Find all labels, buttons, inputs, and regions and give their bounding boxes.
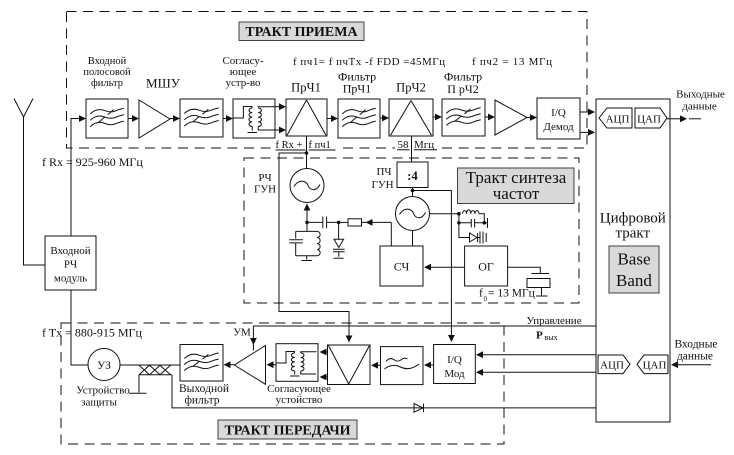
resonator: RF VCO tank circuit (L parallel C)	[289, 222, 320, 260]
block: protection device (УЗ)	[76, 349, 130, 409]
svg-text:Демод: Демод	[543, 121, 574, 133]
wire: IF VCO output to resonator	[430, 213, 459, 215]
diode: power detector	[414, 404, 424, 413]
receive path dashed boundary	[67, 12, 588, 149]
inductor: IF VCO resonator coil	[463, 210, 485, 223]
wire: LO1 from RF VCO to mixer ПрЧ1 with branch to TX mixer	[279, 136, 349, 338]
svg-text:Мод: Мод	[444, 368, 465, 380]
wire: demod Q output to ADC	[580, 129, 595, 136]
block: I/Q modulator (I/Q Мод)	[434, 345, 476, 384]
svg-text:I/Q: I/Q	[447, 354, 462, 366]
converter: RX DAC (ЦАП)	[635, 108, 667, 128]
amplifier: power amp УМ	[233, 327, 265, 385]
converter: TX DAC (ЦАП)	[637, 355, 668, 374]
wire: matching to mixer 1 (two ports)	[275, 103, 286, 133]
svg-text:УМ: УМ	[233, 327, 251, 339]
wire: DAC I to modulator	[476, 351, 596, 358]
svg-text:ПрЧ1: ПрЧ1	[291, 81, 321, 95]
net label background: f Rx + f пч1	[273, 140, 338, 152]
mixer: TX up-converter	[328, 345, 371, 385]
svg-text:данные: данные	[677, 351, 713, 363]
wire: output data arrow	[667, 115, 701, 122]
svg-text:частот: частот	[493, 184, 540, 203]
svg-text:полосовой: полосовой	[83, 67, 131, 78]
svg-text:УЗ: УЗ	[97, 360, 111, 372]
block: output filter (Выходной фильтр)	[179, 345, 229, 407]
wire: LO2 from divider to mixer ПрЧ2	[411, 136, 413, 162]
svg-text:РЧ: РЧ	[258, 172, 271, 184]
node: LO1 branch junction	[305, 151, 309, 155]
svg-text:Устройство: Устройство	[76, 385, 130, 397]
label: transmit path title (ТРАКТ ПЕРЕДАЧИ)	[218, 420, 357, 439]
svg-text:= 13 МГц: = 13 МГц	[488, 288, 535, 300]
block: filter ПрЧ2 (Фильтр ПрЧ2)	[442, 70, 485, 137]
wire: power control line (Управление Рвых) from BaseBand to PA	[253, 326, 596, 351]
wire: filter2 to IF amplifier	[485, 114, 495, 121]
block: input bandpass filter (Входной полосовой фильтр)	[83, 56, 131, 138]
wire: mixer1 to IF1 filter	[327, 115, 338, 122]
wire: TX filter to mixer	[371, 362, 381, 369]
svg-text:Выходной: Выходной	[179, 383, 229, 395]
wire: УЗ to output filter	[120, 364, 180, 366]
svg-text:тракт: тракт	[616, 226, 651, 242]
wire: filter1 to mixer2	[380, 115, 389, 122]
svg-text:Управление: Управление	[526, 315, 581, 327]
block: frequency synthesizer (СЧ)	[380, 246, 423, 286]
varactor diode to ground	[333, 222, 345, 258]
block: TX IF filter	[381, 347, 424, 385]
block: filter ПрЧ1 (Фильтр ПрЧ1)	[338, 70, 380, 139]
wire: PA to output filter	[224, 361, 235, 368]
svg-text:Base: Base	[617, 250, 650, 269]
block: matching device (Согласующее устр-во)	[222, 55, 275, 138]
amplifier: LNA (МШУ)	[139, 76, 181, 139]
mixer ПрЧ1	[286, 81, 327, 137]
ground of coupler	[129, 375, 147, 394]
svg-text:устойство: устойство	[276, 394, 323, 406]
svg-text:Входные: Входные	[674, 339, 717, 351]
node: divider-VCO junction	[411, 189, 415, 193]
block: Base Band	[609, 246, 659, 293]
net label background: 58 Мгц	[395, 139, 439, 149]
wire: RF module up to RX filter input	[71, 115, 86, 236]
svg-text:ПрЧ2: ПрЧ2	[396, 81, 426, 95]
wire: synthesizer output down to СЧ	[390, 222, 392, 246]
resistor: tuning line resistor	[339, 219, 392, 226]
wire: demod I output to ADC	[580, 109, 595, 116]
svg-text:Выходные: Выходные	[676, 89, 725, 101]
wire: mixer outputs to matching (two ports)	[320, 349, 328, 381]
svg-text:Band: Band	[616, 271, 652, 290]
svg-text:ТРАКТ ПЕРЕДАЧИ: ТРАКТ ПЕРЕДАЧИ	[224, 424, 350, 439]
node: resonator top junction	[457, 212, 461, 216]
svg-text:f Rx = 925-960 МГц: f Rx = 925-960 МГц	[42, 155, 143, 169]
wire: divider to IF VCO with branch to I/Q modulator	[413, 188, 452, 339]
svg-text:модуль: модуль	[54, 273, 87, 285]
svg-text:вых: вых	[545, 333, 558, 342]
wire: matching to PA	[267, 361, 277, 368]
svg-text:ПЧ: ПЧ	[376, 166, 391, 178]
label: receive path title (ТРАКТ ПРИЕМА)	[239, 22, 364, 41]
block: TX matching device (Согласующее устойство)	[267, 344, 331, 406]
svg-text:ОГ: ОГ	[478, 260, 494, 274]
svg-text:I/Q: I/Q	[551, 107, 566, 119]
svg-text:f Tx = 880-915 МГц: f Tx = 880-915 МГц	[42, 326, 142, 340]
wire: coupler tap to power detector line	[172, 375, 596, 408]
svg-text:ПрЧ1: ПрЧ1	[343, 82, 371, 96]
oscillator: RF VCO (РЧ ГУН)	[254, 169, 324, 203]
capacitor: resonator cap branch	[459, 214, 488, 228]
svg-text:ГУН: ГУН	[254, 184, 276, 196]
oscillator: IF VCO (ПЧ ГУН)	[396, 197, 430, 231]
mixer ПрЧ2	[389, 81, 433, 137]
svg-text:Входной: Входной	[50, 245, 90, 257]
svg-text:Цифровой: Цифровой	[600, 211, 666, 227]
svg-text:f пч1= f пчTx -f FDD =45МГц: f пч1= f пчTx -f FDD =45МГц	[293, 56, 445, 68]
wire: RF module down to TX protection device	[71, 290, 88, 365]
svg-text:ТРАКТ ПРИЕМА: ТРАКТ ПРИЕМА	[245, 25, 358, 40]
block: input RF module (Входной РЧ модуль)	[45, 236, 96, 290]
wire: modulator to TX filter	[424, 362, 434, 369]
svg-text:f: f	[479, 288, 483, 300]
svg-text:Входной: Входной	[88, 56, 127, 67]
svg-text:f пч2 = 13 МГц: f пч2 = 13 МГц	[472, 56, 552, 68]
capacitor: coupling cap on tuning line	[307, 217, 339, 229]
wire: LNA to image filter	[170, 115, 180, 122]
svg-text:ЦАП: ЦАП	[637, 114, 661, 126]
wire: amp to IQ demodulator	[527, 114, 537, 121]
divider :4 (U-div)	[371, 162, 428, 191]
svg-text:ГУН: ГУН	[371, 179, 393, 191]
wire: IF VCO down to СЧ	[412, 231, 414, 247]
synthesizer path dashed boundary	[244, 158, 579, 303]
wire: tuning node up into RF VCO	[306, 207, 308, 222]
block: image-reject filter	[180, 99, 223, 137]
svg-text:АЦП: АЦП	[606, 114, 630, 126]
antenna	[14, 99, 45, 266]
converter: RX ADC (АЦП)	[599, 108, 632, 128]
svg-text:П рЧ2: П рЧ2	[447, 82, 478, 96]
svg-text:МШУ: МШУ	[146, 76, 181, 91]
block: reference oscillator (ОГ)	[465, 246, 508, 286]
converter: TX ADC (АЦП)	[598, 355, 630, 374]
svg-text:фильтр: фильтр	[91, 78, 123, 89]
wire: mixer2 to IF2 filter	[433, 114, 442, 121]
wire: filter to LNA	[128, 115, 139, 122]
svg-text:АЦП: АЦП	[600, 360, 624, 372]
label: synthesizer title (Тракт синтеза частот)	[458, 168, 575, 204]
svg-text:РЧ: РЧ	[64, 259, 77, 271]
varactor branch of IF resonator	[459, 223, 486, 244]
svg-text:данные: данные	[682, 101, 717, 113]
crystal resonator of ОГ	[508, 267, 550, 296]
node: varactor junction	[337, 221, 341, 225]
wire: ОГ to СЧ	[424, 264, 465, 271]
block: digital path (Цифровой тракт)	[596, 99, 670, 422]
svg-text:0: 0	[484, 295, 488, 303]
node: RF VCO tuning node	[305, 221, 309, 225]
node: resonator cap junction	[483, 221, 487, 225]
directional coupler (hatched)	[139, 365, 172, 374]
svg-text:фильтр: фильтр	[184, 395, 219, 407]
transmit path dashed boundary	[61, 323, 504, 444]
block: I/Q demodulator (I/Q Демод)	[537, 98, 580, 139]
svg-text:устр-во: устр-во	[225, 77, 261, 89]
svg-text:защиты: защиты	[81, 397, 117, 409]
node: varactor branch junction	[457, 221, 461, 225]
wire: filter to matching device	[223, 115, 233, 122]
wire: input data arrow	[671, 361, 711, 368]
svg-text:ЦАП: ЦАП	[643, 360, 667, 372]
svg-text::4: :4	[407, 169, 418, 183]
svg-text:СЧ: СЧ	[394, 260, 410, 274]
wire: DAC Q to modulator	[476, 369, 596, 376]
amplifier: IF amp	[495, 100, 527, 135]
svg-text:Р: Р	[536, 330, 543, 342]
